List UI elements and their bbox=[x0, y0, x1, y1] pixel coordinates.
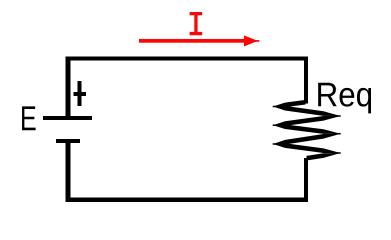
wire left upper bbox=[66, 57, 71, 116]
current arrow shaft bbox=[139, 39, 246, 43]
battery E negative plate bbox=[56, 139, 80, 143]
label I (red serif capital) bbox=[190, 12, 203, 35]
wire left lower bbox=[66, 143, 71, 202]
battery E positive plate bbox=[43, 116, 92, 120]
resistor Req right tip spikes bbox=[333, 116, 341, 153]
wire top bbox=[66, 57, 309, 61]
battery plus sign bbox=[74, 81, 87, 106]
label E bbox=[22, 106, 36, 130]
current arrow head bbox=[244, 35, 258, 46]
wire right lower bbox=[304, 158, 308, 202]
wire right upper bbox=[304, 57, 308, 104]
resistor Req left tip spikes bbox=[273, 107, 281, 145]
current arrow tip spike bbox=[251, 40, 259, 42]
wire bottom bbox=[66, 197, 309, 201]
label Req bbox=[318, 83, 371, 114]
resistor Req zigzag bbox=[273, 100, 341, 161]
